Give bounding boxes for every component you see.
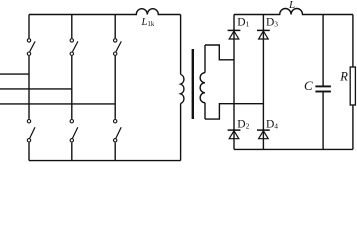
wire secondary bottom stub to right bridge leg: [205, 104, 263, 119]
diode D2: [228, 119, 250, 139]
diode D1: [228, 16, 250, 39]
diode D4: [257, 119, 278, 139]
svg-text:R: R: [339, 70, 348, 84]
svg-text:D: D: [266, 16, 274, 28]
switch S1 top (vertical 1): [27, 15, 35, 119]
svg-text:2: 2: [246, 122, 250, 131]
wire bridge right leg: [262, 15, 264, 150]
transformer secondary winding: [200, 45, 205, 119]
inductor L1k: [29, 9, 181, 29]
svg-text:D: D: [237, 16, 245, 28]
wire right vertical of primary loop + transformer primary winding: [181, 15, 184, 161]
diode D3: [257, 16, 278, 39]
svg-text:1: 1: [246, 19, 250, 28]
svg-text:L: L: [288, 0, 295, 11]
wire phase input b: [0, 88, 72, 90]
wire bottom bus (left loop): [29, 160, 181, 162]
svg-text:D: D: [266, 119, 274, 131]
resistor R: [339, 15, 355, 150]
capacitor C: [304, 15, 331, 150]
wire bridge bottom bus: [234, 148, 353, 150]
transformer core: [192, 49, 194, 119]
switch S2 top (vertical 2): [70, 15, 78, 119]
svg-text:1k: 1k: [147, 20, 155, 28]
wire bridge left leg: [233, 15, 235, 150]
svg-text:4: 4: [274, 122, 278, 131]
svg-text:3: 3: [274, 19, 278, 28]
switch S3 top (vertical 3): [114, 15, 122, 119]
switch S6 bottom (vertical 3): [114, 120, 122, 161]
wire phase input a: [0, 73, 29, 75]
svg-text:C: C: [304, 78, 313, 93]
inductor L: [234, 0, 353, 15]
wire secondary top stub to left bridge leg: [205, 45, 234, 60]
switch S5 bottom (vertical 2): [70, 120, 78, 161]
svg-text:D: D: [237, 119, 245, 131]
wire phase input c: [0, 103, 115, 105]
switch S4 bottom (vertical 1): [27, 120, 35, 161]
